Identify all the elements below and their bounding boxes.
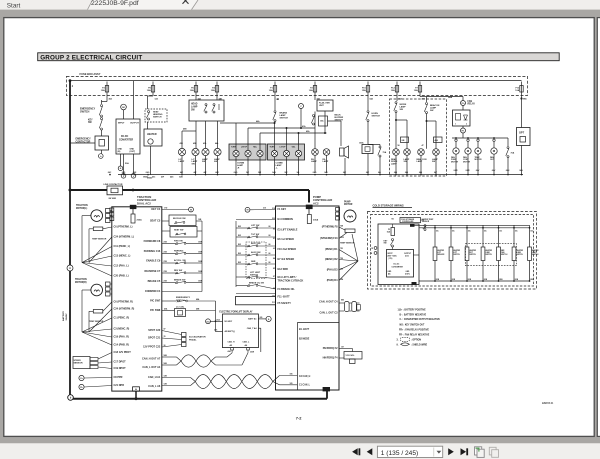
svg-text:HEATING: HEATING xyxy=(153,113,163,116)
svg-text:SEAT SW: SEAT SW xyxy=(174,229,183,232)
svg-text:SWITCH: SWITCH xyxy=(532,254,539,256)
svg-text:PARKING C16: PARKING C16 xyxy=(144,250,161,253)
svg-text:(OUT): (OUT) xyxy=(405,273,410,275)
svg-text:TRACTION: TRACTION xyxy=(76,204,88,207)
svg-text:(B): (B) xyxy=(118,151,121,153)
svg-text:PARKING: PARKING xyxy=(174,250,184,253)
svg-text:50A: 50A xyxy=(125,162,129,165)
svg-text:300A: 300A xyxy=(313,219,319,222)
svg-text:OUTPUT: OUTPUT xyxy=(404,253,412,255)
svg-text:1Y1: 1Y1 xyxy=(272,296,275,298)
svg-text:KEY C4: KEY C4 xyxy=(151,208,161,211)
svg-text:SWITCH: SWITCH xyxy=(280,118,289,120)
svg-text:E05: E05 xyxy=(238,235,241,237)
svg-text:AUX1 SW: AUX1 SW xyxy=(251,242,261,245)
svg-text:186: 186 xyxy=(290,374,293,376)
svg-text:E05: E05 xyxy=(238,253,241,255)
svg-text:CAN_H A1: CAN_H A1 xyxy=(148,376,161,379)
svg-text:56: 56 xyxy=(398,145,400,147)
svg-text:LINE CONTACTOR: LINE CONTACTOR xyxy=(104,183,123,186)
svg-text:A94: A94 xyxy=(228,350,231,353)
svg-text:SWITCH: SWITCH xyxy=(501,254,508,256)
svg-text:B- : BATTERY NEGATIVE: B- : BATTERY NEGATIVE xyxy=(400,314,427,317)
svg-text:AUX2 SW: AUX2 SW xyxy=(251,251,261,254)
svg-text:44G: 44G xyxy=(170,176,174,179)
svg-text:DC-DC: DC-DC xyxy=(394,264,400,266)
svg-text:CAN_L A6: CAN_L A6 xyxy=(148,385,161,388)
svg-text:E12 SBR: E12 SBR xyxy=(278,268,289,271)
svg-text:1 (135 / 245): 1 (135 / 245) xyxy=(381,450,418,457)
svg-text:B2 MODE: B2 MODE xyxy=(299,339,310,341)
svg-text:LAMP: LAMP xyxy=(311,160,317,163)
svg-text:(NTHERM) F13: (NTHERM) F13 xyxy=(320,237,338,240)
svg-text:COMMON C4: COMMON C4 xyxy=(145,290,161,293)
svg-text:F1 KEY: F1 KEY xyxy=(278,208,287,211)
svg-text:NO : KEY SWITCH OUT: NO : KEY SWITCH OUT xyxy=(400,324,425,326)
svg-text:SWITCH: SWITCH xyxy=(372,116,381,118)
svg-text:C6 (PTHERM_L): C6 (PTHERM_L) xyxy=(114,226,133,229)
svg-text:C24 (NTHERM_R): C24 (NTHERM_R) xyxy=(114,308,135,311)
svg-text:(PHB) D4: (PHB) D4 xyxy=(327,279,338,282)
svg-text:ENABLE C9: ENABLE C9 xyxy=(146,260,161,263)
svg-text:NO KEY: NO KEY xyxy=(225,321,233,323)
svg-text:218: 218 xyxy=(272,208,275,210)
svg-text:GND2: GND2 xyxy=(143,177,148,179)
svg-text:E3 LIFT ENABLE: E3 LIFT ENABLE xyxy=(278,229,298,232)
svg-text:REV SW: REV SW xyxy=(174,270,182,272)
svg-text:885: 885 xyxy=(341,299,344,301)
svg-text:ELECTRIC FORKLIFT DISPLAY: ELECTRIC FORKLIFT DISPLAY xyxy=(219,310,253,313)
svg-text:CAN_L OUT C3: CAN_L OUT C3 xyxy=(319,312,338,315)
svg-text:G4G: G4G xyxy=(146,171,150,174)
svg-text:HEAD: HEAD xyxy=(191,103,198,106)
svg-text:SW: SW xyxy=(404,161,407,163)
svg-text:FR+: FR+ xyxy=(461,103,464,105)
svg-text:SW: SW xyxy=(214,161,217,163)
svg-text:SWITCH: SWITCH xyxy=(80,110,90,113)
svg-text:(PENC) D1: (PENC) D1 xyxy=(325,248,338,251)
svg-text:86: 86 xyxy=(269,253,271,255)
svg-text:86: 86 xyxy=(269,262,271,264)
svg-text:LAMP: LAMP xyxy=(417,160,423,163)
svg-text:LSTOP: LSTOP xyxy=(280,147,287,149)
svg-text:C20 (PHB_L): C20 (PHB_L) xyxy=(114,275,129,278)
svg-text:CAN_L OUT A4: CAN_L OUT A4 xyxy=(142,366,161,369)
svg-text:7D4: 7D4 xyxy=(340,278,343,281)
svg-text:ACCEL. SW: ACCEL. SW xyxy=(174,259,186,262)
svg-text:SENSOR: SENSOR xyxy=(422,221,430,223)
svg-text:LAMP: LAMP xyxy=(237,164,244,167)
svg-text:PH/FDRQ F2: PH/FDRQ F2 xyxy=(323,347,338,350)
svg-text:12V PPOT C22: 12V PPOT C22 xyxy=(143,346,161,349)
svg-text:M: M xyxy=(190,209,192,211)
svg-text:FR+ : FAN RELAY POSITIVE: FR+ : FAN RELAY POSITIVE xyxy=(399,328,429,331)
svg-text:C19 (PHA_R): C19 (PHA_R) xyxy=(114,336,129,339)
svg-text:SENSOR: SENSOR xyxy=(74,363,83,365)
svg-text:P/C SW8: P/C SW8 xyxy=(150,309,161,312)
svg-text:: SHIELD WIRE: : SHIELD WIRE xyxy=(411,345,428,347)
svg-text:LAMP: LAMP xyxy=(179,160,185,163)
svg-text:CONTROLLER: CONTROLLER xyxy=(402,221,414,223)
svg-text:LINE3: LINE3 xyxy=(532,252,537,254)
svg-text:85: 85 xyxy=(273,268,275,270)
svg-text:E05: E05 xyxy=(238,226,241,228)
svg-text:F11 -BATT: F11 -BATT xyxy=(278,296,291,299)
svg-text:BRAKE OIL SW: BRAKE OIL SW xyxy=(249,282,264,285)
svg-text:LIFT: LIFT xyxy=(437,252,440,254)
svg-text:E6 1st SPEED: E6 1st SPEED xyxy=(278,238,295,241)
svg-text:C19 NPOT: C19 NPOT xyxy=(114,367,127,370)
svg-text:FUSE BOX ASSY: FUSE BOX ASSY xyxy=(80,72,101,76)
svg-text:FR- : FAN RELAY NEGATIVE: FR- : FAN RELAY NEGATIVE xyxy=(399,333,430,336)
svg-text:PEDAL: PEDAL xyxy=(189,338,197,341)
svg-text:C11 (PENC_L): C11 (PENC_L) xyxy=(114,245,131,248)
svg-text:10A: 10A xyxy=(269,89,273,92)
svg-text:FWD SW: FWD SW xyxy=(174,241,183,243)
svg-text:SW: SW xyxy=(192,164,195,166)
svg-text:SPOT C20: SPOT C20 xyxy=(148,329,161,332)
svg-text:BATT A1: BATT A1 xyxy=(248,318,257,321)
svg-text:REVERSE C7: REVERSE C7 xyxy=(145,270,161,273)
svg-text:AC2: AC2 xyxy=(313,202,319,206)
svg-text:C1 (PENC_R): C1 (PENC_R) xyxy=(114,317,130,320)
svg-text:36: 36 xyxy=(164,345,166,347)
svg-text:CAN_T A4: CAN_T A4 xyxy=(247,327,258,330)
svg-text:C1 CAN_L: C1 CAN_L xyxy=(299,384,311,387)
svg-text:A: A xyxy=(69,267,71,270)
svg-text:F10 2nd SPEED: F10 2nd SPEED xyxy=(278,248,297,251)
svg-text:DPOT C21: DPOT C21 xyxy=(148,337,161,340)
svg-text:TILT SW: TILT SW xyxy=(251,234,259,236)
svg-text:44F: 44F xyxy=(193,171,196,174)
svg-text:CONVERTER: CONVERTER xyxy=(119,140,134,142)
svg-text:34F: 34F xyxy=(246,171,249,174)
svg-text:TRACTION CUTBACK: TRACTION CUTBACK xyxy=(278,280,304,283)
svg-text:VCU SOL: VCU SOL xyxy=(346,355,356,357)
svg-text:LIFT: LIFT xyxy=(453,252,456,254)
svg-text:FORWARD C8: FORWARD C8 xyxy=(144,240,161,243)
svg-text:2225J0B-9F.pdf: 2225J0B-9F.pdf xyxy=(91,0,139,7)
svg-text:84: 84 xyxy=(273,257,275,260)
svg-text:10A: 10A xyxy=(101,89,105,92)
svg-text:BACK: BACK xyxy=(335,114,342,117)
svg-text:CONVERTER: CONVERTER xyxy=(392,266,404,268)
svg-text:BUCKLE SW: BUCKLE SW xyxy=(173,218,186,220)
svg-text:(OUT): (OUT) xyxy=(130,151,136,153)
svg-text:SWITCH: SWITCH xyxy=(469,254,476,256)
svg-text:SENSOR: SENSOR xyxy=(437,254,445,256)
svg-text:7D2: 7D2 xyxy=(340,258,343,260)
svg-text:LIFT SW: LIFT SW xyxy=(251,225,259,227)
svg-text:CAN_L: CAN_L xyxy=(243,341,250,344)
svg-text:CAN_H OUT C4: CAN_H OUT C4 xyxy=(319,301,338,304)
svg-text:B1 -BATT: B1 -BATT xyxy=(299,328,310,331)
svg-text:MOTOR(L): MOTOR(L) xyxy=(76,208,87,210)
svg-text:C3 (NENC_R): C3 (NENC_R) xyxy=(114,328,130,331)
svg-text:GROUP 2 ELECTRICAL CIRCUIT: GROUP 2 ELECTRICAL CIRCUIT xyxy=(40,55,142,62)
svg-text:C13 (NENC_L): C13 (NENC_L) xyxy=(114,255,131,258)
svg-text:C8 PPR: C8 PPR xyxy=(114,376,123,379)
svg-text:Start: Start xyxy=(7,3,21,10)
svg-text:C17 DPOT: C17 DPOT xyxy=(114,361,127,364)
svg-text:SWITCH: SWITCH xyxy=(516,254,523,256)
svg-text:87: 87 xyxy=(273,276,275,278)
svg-text:(PHA) D3: (PHA) D3 xyxy=(327,269,338,272)
svg-text:200A: 200A xyxy=(137,219,143,222)
svg-text:265: 265 xyxy=(260,317,263,319)
svg-text:MOTOR(R): MOTOR(R) xyxy=(75,282,87,284)
svg-text:MOTOR: MOTOR xyxy=(475,159,483,161)
svg-text:C18 12V PROT: C18 12V PROT xyxy=(114,351,132,354)
svg-text:215: 215 xyxy=(263,208,266,210)
svg-text:SBR: SBR xyxy=(251,261,256,263)
svg-text:100A: 100A xyxy=(359,142,364,145)
svg-text:ACCELERATOR: ACCELERATOR xyxy=(189,336,206,339)
svg-text:36/48V: 36/48V xyxy=(65,313,68,320)
svg-text:BRAKE: BRAKE xyxy=(280,112,288,115)
svg-text:MOTOR: MOTOR xyxy=(463,161,471,163)
svg-text:G4G: G4G xyxy=(234,171,238,174)
svg-text:P/C SW7: P/C SW7 xyxy=(150,300,161,303)
svg-text:HH/FDRQ F4: HH/FDRQ F4 xyxy=(323,357,339,360)
svg-text:SW: SW xyxy=(432,161,435,163)
svg-text:SWITCH: SWITCH xyxy=(485,254,492,256)
svg-text:FAN: FAN xyxy=(468,100,473,103)
svg-text:C12 (PHA_L): C12 (PHA_L) xyxy=(114,265,129,268)
svg-text:SEAT: SEAT xyxy=(153,111,159,114)
svg-text:A5 BATT(-): A5 BATT(-) xyxy=(225,330,236,333)
svg-text:BEACON: BEACON xyxy=(430,104,440,107)
svg-text:TEMP SENSOR: TEMP SENSOR xyxy=(92,239,107,241)
svg-text:OPT: OPT xyxy=(519,132,525,135)
svg-text:SW: SW xyxy=(384,243,387,245)
svg-text:TRACTION: TRACTION xyxy=(75,278,87,281)
svg-text:185: 185 xyxy=(290,383,293,385)
svg-text:RELAY: RELAY xyxy=(468,103,476,106)
svg-text:BRAKE SW: BRAKE SW xyxy=(174,279,185,282)
svg-text:10A: 10A xyxy=(147,89,151,92)
svg-text:E05: E05 xyxy=(238,262,241,264)
svg-text:7D3: 7D3 xyxy=(340,269,343,271)
svg-text:CAN_H OUT A7: CAN_H OUT A7 xyxy=(142,358,161,361)
svg-text:SWITCH: SWITCH xyxy=(453,254,460,256)
svg-text:10A: 10A xyxy=(414,89,418,92)
svg-text:7-2: 7-2 xyxy=(296,416,303,421)
svg-text:47: 47 xyxy=(422,144,424,147)
svg-text:86: 86 xyxy=(273,229,275,231)
svg-text:(13V): (13V) xyxy=(405,255,409,257)
svg-text:10A: 10A xyxy=(515,89,519,92)
svg-text:C6 (PTHERM_R): C6 (PTHERM_R) xyxy=(114,301,133,304)
svg-text:2: 2 xyxy=(466,124,467,126)
svg-text:INPUT: INPUT xyxy=(118,123,125,125)
svg-text:7D8: 7D8 xyxy=(340,226,343,228)
svg-text:97: 97 xyxy=(164,329,166,331)
svg-text:0W 96N2: 0W 96N2 xyxy=(109,198,117,200)
svg-text:UNIT: UNIT xyxy=(319,105,324,107)
svg-text:E7 3rd SPEED: E7 3rd SPEED xyxy=(278,258,295,261)
svg-text:F5 SAFETY: F5 SAFETY xyxy=(278,302,292,305)
svg-text:(15V): (15V) xyxy=(389,258,393,260)
svg-text:86: 86 xyxy=(269,226,271,228)
svg-text:10A: 10A xyxy=(309,89,313,92)
svg-text:22BF05-01: 22BF05-01 xyxy=(542,403,554,405)
svg-text:86: 86 xyxy=(269,235,271,237)
svg-text:KEY: KEY xyxy=(88,120,93,122)
svg-text:F4 BRAKE OIL: F4 BRAKE OIL xyxy=(278,288,296,291)
svg-text:LAMP: LAMP xyxy=(280,114,287,117)
svg-text:FR-: FR- xyxy=(462,131,465,133)
svg-text:TEMP SENSOR: TEMP SENSOR xyxy=(340,243,355,245)
svg-text:7D13: 7D13 xyxy=(340,237,344,239)
svg-text:EMERGENCY: EMERGENCY xyxy=(176,297,191,299)
svg-text:C2 CAN_H: C2 CAN_H xyxy=(299,375,311,378)
svg-text:E05: E05 xyxy=(238,244,241,246)
svg-text:MOTOR: MOTOR xyxy=(451,161,459,163)
svg-text:E4 COMMON: E4 COMMON xyxy=(278,218,294,221)
svg-text:35: 35 xyxy=(164,336,166,338)
svg-text:G4G: G4G xyxy=(272,171,276,174)
svg-text:N0: N0 xyxy=(392,219,394,221)
svg-text:G6W: G6W xyxy=(466,170,470,172)
svg-text:ROT: ROT xyxy=(469,252,472,254)
svg-text:62: 62 xyxy=(273,248,275,250)
svg-text:C24 (NTHERM_L): C24 (NTHERM_L) xyxy=(114,236,135,239)
svg-text:BATTERY: BATTERY xyxy=(62,310,65,321)
svg-text:OUTPUT: OUTPUT xyxy=(130,123,139,125)
svg-text:1,B+ : BATTERY POSITIVE: 1,B+ : BATTERY POSITIVE xyxy=(398,309,427,312)
svg-text:15A: 15A xyxy=(362,89,366,92)
svg-text:F11: F11 xyxy=(272,302,275,304)
svg-text:: OPTION: : OPTION xyxy=(411,340,421,342)
svg-text:M: M xyxy=(247,210,249,212)
svg-text:(NENC) D2: (NENC) D2 xyxy=(325,258,338,261)
svg-text:G4G: G4G xyxy=(313,171,317,174)
svg-text:10A: 10A xyxy=(211,89,215,92)
svg-text:SWITCH: SWITCH xyxy=(153,117,162,119)
svg-text:81: 81 xyxy=(273,238,275,240)
svg-text:157: 157 xyxy=(341,347,344,349)
svg-text:U05: U05 xyxy=(214,330,217,332)
svg-text:N4A: N4A xyxy=(448,96,453,99)
svg-text:(PTHERM) F8: (PTHERM) F8 xyxy=(322,226,338,229)
svg-text:HEATER: HEATER xyxy=(147,133,157,136)
svg-text:MOTOR: MOTOR xyxy=(344,204,353,206)
svg-text:LAMP: LAMP xyxy=(430,107,437,110)
svg-text:10A: 10A xyxy=(190,89,194,92)
svg-text:LAMP: LAMP xyxy=(400,106,407,109)
svg-text:SW: SW xyxy=(202,161,205,163)
svg-text:1: 1 xyxy=(455,124,456,126)
svg-text:LSTOP: LSTOP xyxy=(241,147,248,149)
svg-text:LAMP: LAMP xyxy=(191,105,198,108)
svg-text:LAMP: LAMP xyxy=(323,160,329,163)
svg-text:86: 86 xyxy=(269,244,271,246)
svg-text:C- : CONVERTER OUTPUT NEGATI: C- : CONVERTER OUTPUT NEGATIVE xyxy=(400,318,441,321)
svg-text:7D1: 7D1 xyxy=(340,248,343,250)
svg-text:DC-DC: DC-DC xyxy=(121,136,129,138)
svg-text:75A: 75A xyxy=(511,152,515,155)
svg-text:SEAT C5: SEAT C5 xyxy=(150,220,161,223)
svg-text:44F: 44F xyxy=(203,171,206,174)
svg-text:CAN_H: CAN_H xyxy=(228,341,235,344)
svg-text:C14 (PHB_R): C14 (PHB_R) xyxy=(114,344,129,347)
svg-text:LAMP: LAMP xyxy=(391,163,397,166)
svg-text:PUMP: PUMP xyxy=(344,201,351,203)
svg-text:BRAKE C5: BRAKE C5 xyxy=(148,280,161,283)
svg-text:G6W: G6W xyxy=(454,170,458,172)
svg-text:75A: 75A xyxy=(383,151,387,154)
svg-text:DUAL AC2: DUAL AC2 xyxy=(137,202,151,206)
svg-text:C21 NPR: C21 NPR xyxy=(114,384,125,387)
svg-text:LAMP: LAMP xyxy=(276,164,283,167)
svg-text:10A: 10A xyxy=(391,89,395,92)
svg-text:COLD STORAGE WIRING: COLD STORAGE WIRING xyxy=(373,203,404,207)
